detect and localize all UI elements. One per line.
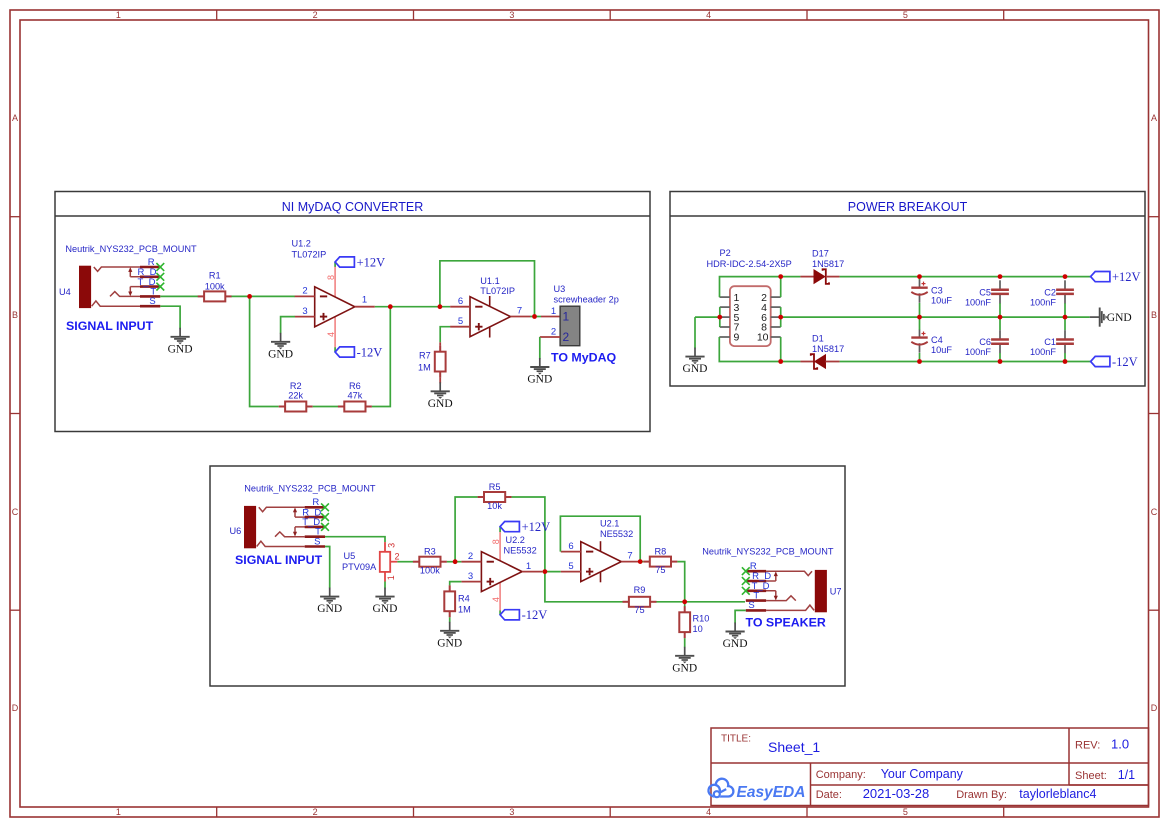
- op-amp U1.2 TL072IP: [295, 262, 375, 352]
- svg-text:100nF: 100nF: [1030, 347, 1056, 357]
- svg-text:47k: 47k: [347, 390, 362, 400]
- svg-text:3: 3: [509, 807, 514, 817]
- svg-text:S: S: [149, 296, 155, 307]
- svg-text:C4: C4: [931, 335, 943, 345]
- capacitor C5 100nF: [999, 303, 1001, 317]
- svg-text:R7: R7: [419, 351, 431, 361]
- wire GND rail right: [781, 316, 1090, 318]
- svg-text:5: 5: [903, 807, 908, 817]
- svg-text:U1.1: U1.1: [480, 276, 499, 286]
- svg-text:-12V: -12V: [1112, 355, 1138, 369]
- wire U5 pin2 to R3: [397, 561, 413, 563]
- resistor R1: [198, 291, 232, 301]
- net flag GND right: [1090, 308, 1108, 327]
- U7 pin name labels: [748, 561, 771, 611]
- svg-text:-12V: -12V: [522, 608, 548, 622]
- svg-text:NE5532: NE5532: [600, 529, 633, 539]
- svg-text:B: B: [1151, 310, 1157, 320]
- svg-text:GND: GND: [527, 374, 552, 386]
- wire P2 pins 3-5-7 tie: [719, 307, 721, 327]
- op-amp U2.2 NE5532: [461, 527, 542, 615]
- svg-text:taylorleblanc4: taylorleblanc4: [1019, 787, 1096, 801]
- svg-text:2: 2: [395, 552, 400, 562]
- wire GND drop to ground symbol: [694, 317, 696, 348]
- resistor R7: [439, 342, 441, 345]
- svg-text:22k: 22k: [288, 390, 303, 400]
- node U1.1 output: [532, 314, 537, 319]
- svg-text:5: 5: [458, 316, 463, 327]
- svg-text:10: 10: [757, 332, 769, 344]
- svg-text:U3: U3: [554, 284, 566, 294]
- svg-text:Sheet:: Sheet:: [1075, 770, 1107, 782]
- svg-text:3: 3: [387, 543, 397, 548]
- svg-text:S: S: [314, 537, 320, 548]
- svg-text:1: 1: [386, 575, 396, 580]
- ground at U3 pin2: [530, 358, 549, 375]
- svg-text:POWER BREAKOUT: POWER BREAKOUT: [848, 200, 968, 214]
- svg-text:C: C: [1151, 507, 1158, 517]
- svg-text:A: A: [1151, 113, 1157, 123]
- svg-text:1: 1: [362, 295, 367, 306]
- wire R2 to R6: [313, 406, 338, 408]
- svg-text:REV:: REV:: [1075, 740, 1100, 752]
- svg-text:GND: GND: [672, 662, 697, 674]
- svg-text:D17: D17: [812, 249, 829, 259]
- resistor R8: [641, 561, 643, 563]
- node +12V rail at P2: [778, 274, 783, 279]
- svg-text:GND: GND: [437, 637, 462, 649]
- rail junction nodes: [917, 274, 922, 279]
- resistor R5: [478, 492, 512, 502]
- svg-text:GND: GND: [268, 348, 293, 360]
- svg-text:screwheader 2p: screwheader 2p: [554, 294, 619, 304]
- wire R9 to node: [657, 601, 685, 603]
- U4 pin R: [92, 267, 161, 306]
- svg-text:R4: R4: [458, 594, 470, 604]
- node GND at P2 pin6: [778, 315, 783, 320]
- ground at U1.2 pin3: [271, 333, 290, 350]
- resistor R3: [413, 557, 447, 567]
- wire output down to R9: [545, 572, 623, 602]
- svg-text:R10: R10: [693, 613, 710, 623]
- svg-text:GND: GND: [317, 603, 342, 615]
- svg-text:3: 3: [509, 10, 514, 20]
- svg-text:Neutrik_NYS232_PCB_MOUNT: Neutrik_NYS232_PCB_MOUNT: [65, 244, 197, 254]
- power flag +12V at U1.2: [335, 257, 354, 267]
- svg-text:Neutrik_NYS232_PCB_MOUNT: Neutrik_NYS232_PCB_MOUNT: [244, 484, 376, 494]
- wire U1.1 output to U3: [531, 316, 542, 318]
- svg-text:1: 1: [551, 306, 556, 317]
- wire feedback down from node: [250, 296, 279, 406]
- svg-text:GND: GND: [723, 638, 748, 650]
- svg-text:4: 4: [491, 597, 501, 602]
- U6 pin contacts: [257, 507, 325, 546]
- ground below R10: [684, 638, 686, 647]
- svg-text:C1: C1: [1044, 337, 1056, 347]
- svg-text:4: 4: [326, 332, 336, 337]
- svg-text:2021-03-28: 2021-03-28: [863, 786, 930, 801]
- connector U7 audio jack body: [815, 570, 826, 611]
- svg-text:75: 75: [655, 565, 665, 575]
- wire node to U7 tip: [685, 601, 745, 603]
- svg-text:EasyEDA: EasyEDA: [737, 784, 806, 801]
- svg-text:R3: R3: [424, 546, 436, 556]
- section box NI MyDAQ CONVERTER: [55, 192, 650, 432]
- svg-text:B: B: [12, 310, 18, 320]
- svg-text:100nF: 100nF: [965, 347, 991, 357]
- svg-text:9: 9: [734, 332, 740, 344]
- op-amp U1.1 TL072IP: [450, 296, 530, 338]
- svg-text:1.0: 1.0: [1111, 737, 1129, 752]
- svg-text:2: 2: [563, 330, 570, 344]
- svg-text:GND: GND: [683, 363, 708, 375]
- svg-text:TL072IP: TL072IP: [480, 286, 515, 296]
- wire U3 pin2 to ground: [540, 336, 560, 338]
- svg-text:5: 5: [568, 561, 573, 572]
- svg-text:TITLE:: TITLE:: [721, 734, 751, 745]
- ground at U5: [375, 588, 394, 605]
- svg-text:TL072IP: TL072IP: [292, 250, 327, 260]
- svg-text:D1: D1: [812, 334, 824, 344]
- capacitor C1 100nF: [1064, 317, 1066, 330]
- svg-text:10: 10: [693, 624, 703, 634]
- power flag -12V at U2.2: [500, 610, 519, 620]
- svg-text:8: 8: [326, 275, 336, 280]
- svg-text:1M: 1M: [458, 605, 471, 615]
- EasyEDA logo: [708, 779, 733, 799]
- power flag +12V at U2.2: [500, 522, 519, 532]
- svg-text:1: 1: [563, 310, 570, 324]
- resistor R9: [623, 597, 657, 607]
- svg-text:1: 1: [116, 10, 121, 20]
- svg-text:C3: C3: [931, 285, 943, 295]
- resistor R10: [684, 602, 686, 607]
- wire U6 S to ground: [325, 547, 330, 589]
- wire R5 to output: [512, 497, 545, 572]
- frame column numbers bottom: [116, 807, 908, 817]
- svg-text:6: 6: [458, 296, 463, 307]
- resistor R2: [279, 402, 313, 412]
- wire U2.2 output: [542, 571, 561, 573]
- node R3/R5 junction: [453, 559, 458, 564]
- ground at U7 sleeve: [726, 623, 745, 640]
- wire U1.2 pin3 to ground: [281, 317, 295, 334]
- wire -12V rail: [840, 361, 1091, 363]
- svg-text:SIGNAL INPUT: SIGNAL INPUT: [66, 319, 154, 333]
- frame column ticks bottom: [217, 807, 1004, 817]
- svg-text:U2.1: U2.1: [600, 519, 619, 529]
- title block: [711, 728, 1149, 806]
- svg-text:U2.2: U2.2: [506, 535, 525, 545]
- svg-text:2: 2: [313, 10, 318, 20]
- ground at U6 sleeve: [320, 588, 339, 605]
- U4 no-connect X marks: [156, 263, 164, 271]
- svg-text:P2: P2: [720, 248, 731, 258]
- svg-text:3: 3: [468, 571, 473, 582]
- svg-text:1N5817: 1N5817: [812, 259, 844, 269]
- svg-text:2: 2: [468, 551, 473, 562]
- wire P2 pin2 up to +12V rail: [780, 277, 782, 298]
- svg-text:Date:: Date:: [816, 789, 842, 801]
- svg-text:HDR-IDC-2.54-2X5P: HDR-IDC-2.54-2X5P: [707, 259, 792, 269]
- svg-text:R5: R5: [489, 482, 501, 492]
- svg-text:100nF: 100nF: [1030, 297, 1056, 307]
- svg-text:5: 5: [903, 10, 908, 20]
- power flag -12V at U1.2: [335, 347, 354, 357]
- U4 pin name labels: [138, 257, 157, 307]
- svg-text:4: 4: [706, 10, 711, 20]
- svg-text:R9: R9: [634, 585, 646, 595]
- connector U3 screwheader 2p: [560, 306, 580, 346]
- capacitor C2 100nF: [1064, 303, 1066, 317]
- capacitor C4 10uF: [919, 317, 921, 330]
- svg-text:+12V: +12V: [522, 520, 551, 534]
- svg-text:2: 2: [551, 326, 556, 337]
- svg-text:PTV09A: PTV09A: [342, 562, 377, 572]
- wire +12V rail: [840, 276, 1091, 278]
- U7 pin contacts (mirrored): [746, 571, 814, 610]
- wire P2 pin1 up to +12V rail: [720, 277, 801, 298]
- U7 no-connect X marks: [742, 567, 750, 575]
- wire P2 pins 4-6-8 tie: [780, 307, 782, 327]
- svg-text:R6: R6: [349, 381, 361, 391]
- connector U4 audio jack body: [80, 266, 91, 307]
- svg-text:6: 6: [568, 541, 573, 552]
- svg-text:-12V: -12V: [357, 345, 383, 359]
- svg-text:7: 7: [517, 306, 522, 317]
- resistor R6: [338, 402, 372, 412]
- svg-text:2: 2: [302, 286, 307, 297]
- svg-text:TO SPEAKER: TO SPEAKER: [746, 616, 826, 630]
- svg-text:U6: U6: [230, 526, 242, 536]
- svg-text:C: C: [12, 507, 19, 517]
- svg-text:Drawn By:: Drawn By:: [956, 789, 1007, 801]
- svg-text:Company:: Company:: [816, 769, 866, 781]
- connector U6 audio jack body: [245, 506, 256, 547]
- section box POWER BREAKOUT: [670, 192, 1145, 387]
- svg-text:75: 75: [634, 605, 644, 615]
- node U2.1 output: [638, 559, 643, 564]
- node junction R1/feedback: [247, 294, 252, 299]
- svg-text:SIGNAL INPUT: SIGNAL INPUT: [235, 553, 323, 567]
- frame row letters right: [1151, 113, 1158, 713]
- svg-text:2: 2: [313, 807, 318, 817]
- frame row ticks left: [10, 217, 20, 611]
- svg-text:10uF: 10uF: [931, 295, 952, 305]
- node output U1.2: [388, 304, 393, 309]
- svg-text:U1.2: U1.2: [292, 239, 311, 249]
- node feedback U1.1: [438, 304, 443, 309]
- svg-text:GND: GND: [1107, 312, 1132, 324]
- wire U2.1 feedback: [560, 516, 640, 561]
- wire U1.2 output to U1.1 pin6: [375, 306, 450, 308]
- svg-text:10uF: 10uF: [931, 345, 952, 355]
- svg-text:C5: C5: [979, 287, 991, 297]
- svg-text:7: 7: [627, 551, 632, 562]
- wire P2 pin9 down to -12V rail: [719, 337, 800, 362]
- wire U7 S to ground: [735, 610, 746, 623]
- svg-text:100nF: 100nF: [965, 297, 991, 307]
- wire R1 to U1.2 pin2: [232, 295, 296, 297]
- frame row ticks right: [1149, 217, 1159, 611]
- U6 pin name labels: [302, 497, 321, 547]
- svg-text:4: 4: [706, 807, 711, 817]
- node R8/R9/R10: [682, 599, 687, 604]
- wire GND rail left segment: [695, 316, 720, 318]
- wire feedback over U1.1: [440, 261, 535, 317]
- ground below R7: [439, 378, 441, 384]
- svg-text:3: 3: [302, 306, 307, 317]
- wire U4 S to ground: [160, 306, 180, 328]
- svg-text:C2: C2: [1044, 287, 1056, 297]
- svg-text:Neutrik_NYS232_PCB_MOUNT: Neutrik_NYS232_PCB_MOUNT: [702, 547, 834, 557]
- svg-text:R8: R8: [655, 546, 667, 556]
- wire U6 tip to U5 pin3: [325, 537, 385, 542]
- ground below R4: [449, 617, 451, 622]
- svg-text:10k: 10k: [487, 501, 502, 511]
- wire R8 down to node: [677, 562, 684, 602]
- svg-text:NI MyDAQ CONVERTER: NI MyDAQ CONVERTER: [282, 200, 423, 214]
- op-amp U2.1 NE5532: [561, 541, 642, 582]
- svg-text:NE5532: NE5532: [504, 546, 537, 556]
- wire feedback up to R5: [455, 497, 478, 562]
- wire U4 tip to R1: [160, 295, 198, 297]
- svg-text:+12V: +12V: [1112, 270, 1141, 284]
- svg-text:D: D: [1151, 703, 1158, 713]
- svg-text:R1: R1: [209, 271, 221, 281]
- section box bottom amplifier: [210, 466, 845, 686]
- svg-text:GND: GND: [373, 603, 398, 615]
- svg-text:S: S: [748, 600, 754, 611]
- svg-text:1: 1: [116, 807, 121, 817]
- node -12V rail at P2: [778, 359, 783, 364]
- svg-text:U4: U4: [59, 287, 71, 297]
- ground at U4 sleeve: [171, 328, 190, 345]
- net flag +12V: [1091, 272, 1110, 282]
- svg-text:+12V: +12V: [357, 255, 386, 269]
- node U2.2 output: [543, 569, 548, 574]
- capacitor C3 10uF: [919, 277, 921, 280]
- svg-text:100k: 100k: [420, 566, 440, 576]
- wire P2 pin10 down to -12V rail: [780, 337, 782, 362]
- svg-text:GND: GND: [168, 343, 193, 355]
- svg-text:Sheet_1: Sheet_1: [768, 739, 820, 755]
- frame column ticks top: [217, 10, 1004, 20]
- svg-text:1M: 1M: [418, 363, 431, 373]
- svg-text:R2: R2: [290, 381, 302, 391]
- frame row letters left: [12, 113, 19, 713]
- wire U5 pin1 to ground: [384, 582, 386, 589]
- resistor R4: [444, 585, 455, 617]
- svg-text:TO MyDAQ: TO MyDAQ: [551, 351, 617, 365]
- svg-text:100k: 100k: [205, 282, 225, 292]
- svg-text:Your Company: Your Company: [881, 767, 964, 781]
- svg-text:8: 8: [491, 539, 501, 544]
- frame column numbers top: [116, 10, 908, 20]
- svg-text:1/1: 1/1: [1118, 768, 1135, 782]
- capacitor C6 100nF: [999, 317, 1001, 330]
- svg-text:1N5817: 1N5817: [812, 344, 844, 354]
- svg-text:1: 1: [526, 561, 531, 572]
- node GND at P2 pin5: [717, 315, 722, 320]
- U6 no-connect X marks: [321, 503, 329, 511]
- net flag -12V: [1091, 356, 1110, 366]
- ground at P2: [685, 348, 704, 365]
- svg-text:U7: U7: [830, 587, 842, 597]
- wire R3 to U2.2 pin2: [447, 561, 462, 563]
- wire U1.1 pin5: [440, 327, 450, 343]
- svg-text:C6: C6: [979, 337, 991, 347]
- svg-text:GND: GND: [428, 398, 453, 410]
- svg-text:A: A: [12, 113, 18, 123]
- svg-text:D: D: [12, 703, 19, 713]
- wire U2.2 pin3 to R4: [450, 582, 462, 586]
- svg-text:U5: U5: [344, 551, 356, 561]
- wire R6 up to output node: [372, 307, 390, 407]
